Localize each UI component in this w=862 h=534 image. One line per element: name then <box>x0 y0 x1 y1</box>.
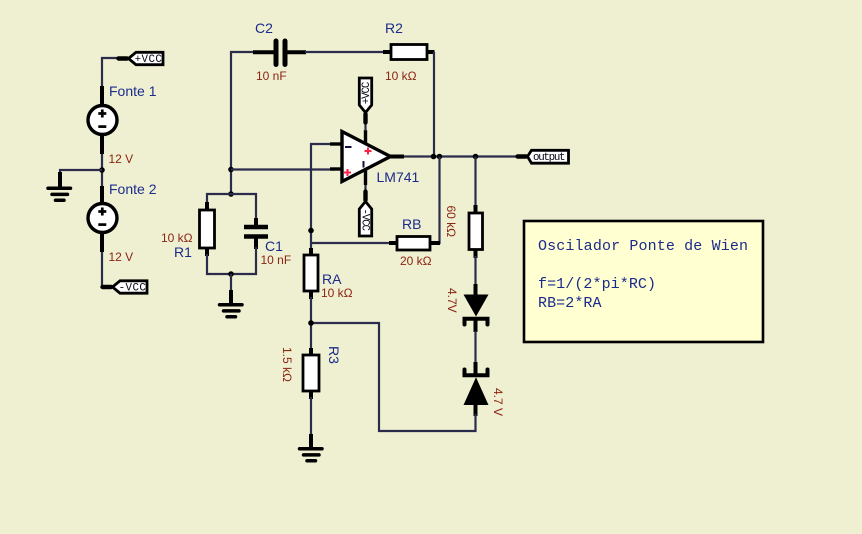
svg-text:12 V: 12 V <box>109 250 134 264</box>
capacitor C2 <box>253 20 306 83</box>
junction output to top rail <box>431 154 437 160</box>
svg-text:Fonte 1: Fonte 1 <box>109 83 157 99</box>
svg-text:60 kΩ: 60 kΩ <box>444 206 458 238</box>
ground (below R1C1) <box>220 290 243 317</box>
svg-text:10 kΩ: 10 kΩ <box>321 286 353 300</box>
svg-text:RB: RB <box>402 216 421 232</box>
svg-text:RA: RA <box>322 271 342 287</box>
svg-text:C2: C2 <box>255 20 273 36</box>
wire op-amp vee pin down <box>364 185 366 202</box>
node label -VCC (op-amp bottom) <box>358 192 371 237</box>
wire Fonte1- to Fonte2+ <box>101 154 103 188</box>
resistor RA <box>304 248 353 300</box>
wire op-amp vcc pin up <box>364 113 366 131</box>
wire R3 to ground <box>310 397 312 447</box>
voltage source Fonte 2 <box>88 181 157 264</box>
junction node at 12V midpoint <box>99 167 105 173</box>
capacitor C1 <box>231 194 291 274</box>
wire +VCC rail from Fonte 1 top <box>102 58 120 90</box>
wire D1 to D2 <box>474 331 476 374</box>
ground (left) <box>48 172 71 200</box>
svg-text:4.7 V: 4.7 V <box>491 388 505 416</box>
wire to ground (left) <box>60 170 102 184</box>
junction output to RB <box>437 154 443 160</box>
svg-text:10 nF: 10 nF <box>261 253 292 267</box>
node label output <box>518 150 569 164</box>
junction on inverting run <box>308 228 314 234</box>
svg-text:1.5 kΩ: 1.5 kΩ <box>280 347 294 382</box>
svg-text:R2: R2 <box>385 20 403 36</box>
wire - input run <box>311 144 334 250</box>
svg-text:10 kΩ: 10 kΩ <box>385 69 417 83</box>
svg-text:RB=2*RA: RB=2*RA <box>538 295 602 312</box>
junction at R1C1 top rail <box>228 191 234 197</box>
wire bottom rail to ground <box>230 274 232 303</box>
svg-text:4.7V: 4.7V <box>445 288 459 313</box>
svg-text:Fonte 2: Fonte 2 <box>109 181 157 197</box>
op-amp U1 LM741 <box>330 130 420 185</box>
svg-text:LM741: LM741 <box>377 169 420 185</box>
annotation text box <box>524 221 763 342</box>
wire down to 60k resistor <box>474 157 476 208</box>
svg-text:f=1/(2*pi*RC): f=1/(2*pi*RC) <box>538 276 656 293</box>
svg-text:R1: R1 <box>174 244 192 260</box>
node label -VCC (left) <box>103 281 148 295</box>
svg-text:12 V: 12 V <box>109 152 134 166</box>
svg-text:-VCC: -VCC <box>119 283 147 295</box>
wire to RB <box>311 242 389 244</box>
svg-text:+VCC: +VCC <box>135 54 163 66</box>
svg-text:+VCC: +VCC <box>361 81 373 104</box>
wire D2 down and left to R3 node <box>311 323 476 431</box>
wire C2 to R2 <box>305 51 383 53</box>
junction RA/R3/feedback <box>308 320 314 326</box>
resistor 60k <box>444 205 483 258</box>
resistor RB <box>389 216 440 268</box>
svg-text:C1: C1 <box>265 238 283 254</box>
junction output to 60k branch <box>473 154 479 160</box>
wire op-amp output to output tag <box>404 155 519 157</box>
wire R2 right down to output node <box>433 52 435 157</box>
resistor R2 <box>383 20 435 83</box>
wire output node down to RB right <box>434 157 440 244</box>
wire to op-amp + input <box>231 168 334 170</box>
zener diode D1 4.7V <box>445 284 489 332</box>
voltage source Fonte 1 <box>88 83 157 166</box>
resistor R1 <box>161 194 231 274</box>
wire left rail (C2 node down to + input) <box>231 52 253 194</box>
svg-text:-VCC: -VCC <box>358 209 370 232</box>
resistor R3 <box>280 346 342 399</box>
svg-text:10 kΩ: 10 kΩ <box>161 231 193 245</box>
svg-text:10 nF: 10 nF <box>256 69 287 83</box>
svg-text:Oscilador Ponte de Wien: Oscilador Ponte de Wien <box>538 238 748 255</box>
zener diode D2 4.7V (reversed) <box>464 362 506 416</box>
junction at + input wire <box>228 167 234 173</box>
svg-text:R3: R3 <box>326 346 342 364</box>
wire Fonte2- to -VCC label <box>102 252 104 287</box>
wire 60k to zener D1 <box>474 256 476 286</box>
junction at R1C1 bottom rail <box>228 271 234 277</box>
svg-text:20 kΩ: 20 kΩ <box>400 254 432 268</box>
ground (below R3) <box>300 434 323 461</box>
node label +VCC (left) <box>119 52 164 66</box>
wire RA to R3 <box>310 297 312 350</box>
node label +VCC (op-amp top) <box>359 78 373 123</box>
svg-text:output: output <box>533 152 566 164</box>
